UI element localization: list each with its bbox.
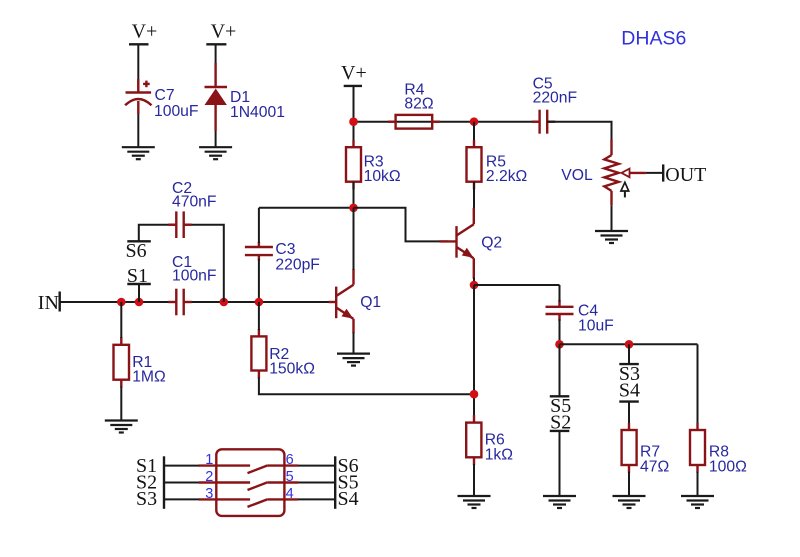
svg-text:100Ω: 100Ω: [709, 458, 747, 475]
wire node to R5: [473, 122, 475, 142]
resistor R3 10k: [346, 140, 401, 190]
wire C5 to VOL: [547, 122, 611, 155]
svg-text:47Ω: 47Ω: [640, 458, 669, 475]
svg-text:V+: V+: [132, 20, 158, 42]
junction node C2 right: [220, 298, 229, 307]
wire R2 column: [258, 302, 260, 330]
wire C2 branch: [139, 225, 177, 242]
svg-text:150kΩ: 150kΩ: [269, 361, 315, 378]
junction node Q2 emitter: [470, 281, 479, 290]
ground (R8): [681, 496, 714, 508]
switch pole 1 wire left: [164, 465, 200, 467]
power symbol V+ (C7 branch): [129, 20, 157, 44]
switch body SW1: [216, 449, 284, 516]
net label S4 (stub): [619, 380, 640, 431]
net label S5 (stub): [550, 344, 571, 417]
wire R1 column: [120, 302, 122, 338]
wire emitter column: [473, 285, 475, 416]
svg-text:IN: IN: [38, 292, 59, 314]
svg-text:S4: S4: [338, 488, 359, 510]
wire C4 bottom row: [560, 343, 698, 345]
capacitor C3 220pF: [245, 241, 320, 274]
junction node S3/R7: [625, 340, 634, 349]
wire R2 bottom row: [259, 377, 474, 394]
capacitor C5 220nF: [532, 76, 577, 134]
capacitor C2 470nF: [168, 180, 216, 238]
wire R8 to ground: [697, 472, 699, 496]
switch pole 3 wire left: [164, 498, 200, 500]
svg-text:2: 2: [205, 469, 213, 485]
wire V+ to node B1: [353, 86, 355, 142]
wire R8 column: [697, 344, 699, 431]
svg-text:VOL: VOL: [561, 167, 593, 184]
switch pole 2 wire right: [298, 482, 335, 484]
transistor Q2: [439, 208, 502, 279]
svg-text:Q1: Q1: [360, 294, 381, 311]
ground (D1): [199, 147, 232, 159]
terminal bar right (S6 S5 S4): [334, 456, 336, 509]
junction node R1: [117, 298, 126, 307]
wire C3 branch: [258, 208, 260, 243]
diode D1 1N4001: [205, 63, 285, 131]
power symbol V+ (R3 branch): [341, 62, 367, 86]
resistor R8 100ohm: [690, 423, 747, 475]
svg-text:Q2: Q2: [481, 235, 502, 252]
wire emitter row to C4: [474, 284, 560, 286]
svg-text:S1: S1: [127, 265, 148, 287]
svg-text:1N4001: 1N4001: [230, 104, 285, 121]
wire C7 to ground: [137, 114, 139, 147]
wire Q1 collector: [353, 208, 355, 270]
svg-text:220nF: 220nF: [533, 90, 577, 107]
svg-text:OUT: OUT: [665, 164, 706, 186]
wire Q1 emitter to ground: [353, 332, 355, 353]
ground (Q1): [337, 354, 370, 366]
ground (VOL): [595, 231, 628, 243]
resistor R5 2.2k: [467, 140, 528, 190]
capacitor C1 100nF: [168, 254, 216, 315]
net label S2 (stub): [550, 412, 571, 496]
svg-text:470nF: 470nF: [172, 194, 216, 211]
svg-text:S3: S3: [136, 488, 157, 510]
junction node S1: [135, 298, 144, 307]
resistor R6 1k: [466, 415, 513, 465]
switch pole 1 contacts: [199, 465, 298, 473]
junction node base of R3 / Q1 collector: [349, 204, 358, 213]
ground (R7): [613, 496, 646, 508]
junction node R6 top: [470, 390, 479, 399]
svg-text:S6: S6: [126, 240, 147, 262]
ground (R1): [105, 421, 138, 433]
capacitor C4 10uF: [546, 300, 614, 335]
resistor R1 1M: [114, 337, 166, 388]
svg-text:C7: C7: [155, 87, 175, 104]
svg-text:4: 4: [286, 486, 294, 502]
junction node C4 bottom: [555, 340, 564, 349]
capacitor C7: [125, 79, 198, 120]
svg-text:10uF: 10uF: [578, 318, 614, 335]
wire wiper to OUT: [646, 172, 663, 174]
switch pole 3 wire right: [298, 498, 335, 500]
wire VOL to ground: [611, 205, 613, 231]
junction node at R5 top: [470, 117, 479, 126]
net label S3 (stub): [619, 344, 640, 385]
svg-text:3: 3: [205, 486, 213, 502]
potentiometer VOL: [561, 139, 646, 205]
wire D1 to ground: [215, 131, 217, 147]
svg-text:5: 5: [286, 469, 294, 485]
resistor R2 150k: [251, 329, 315, 378]
svg-text:1MΩ: 1MΩ: [132, 368, 166, 385]
resistor R4 82ohm: [388, 82, 440, 129]
switch pole 2 contacts: [199, 482, 298, 490]
wire C3 top row: [259, 207, 354, 209]
wire main input row: [60, 301, 177, 303]
net label OUT: [663, 164, 706, 186]
transistor Q1: [329, 269, 382, 333]
ground (S2): [543, 496, 576, 508]
svg-text:S4: S4: [619, 380, 640, 402]
wire R3 to base node: [353, 182, 355, 208]
svg-text:V+: V+: [211, 20, 237, 42]
svg-text:100nF: 100nF: [172, 268, 216, 285]
svg-text:V+: V+: [341, 62, 367, 84]
junction node C3/R2: [255, 298, 264, 307]
power symbol V+ (D1 branch): [206, 20, 236, 44]
svg-text:82Ω: 82Ω: [404, 96, 433, 113]
svg-text:220pF: 220pF: [275, 257, 319, 274]
wire R4 row: [354, 121, 540, 123]
switch pole 3 contacts: [199, 499, 298, 507]
wire R6 to ground: [473, 464, 475, 496]
wire R5 to Q2 collector: [473, 182, 475, 210]
ground (R6): [458, 496, 491, 508]
net label S6 (stub): [126, 240, 151, 262]
net label S1 (stub): [127, 265, 151, 302]
wire Q2 emitter to node: [473, 278, 475, 285]
wire base node to Q2 base: [354, 208, 449, 242]
wire C4 column: [559, 285, 561, 302]
svg-text:DHAS6: DHAS6: [621, 28, 686, 50]
svg-text:C3: C3: [275, 241, 295, 258]
svg-text:1: 1: [205, 452, 213, 468]
svg-text:2.2kΩ: 2.2kΩ: [486, 168, 528, 185]
wire V+ to D1: [215, 44, 217, 64]
svg-text:100uF: 100uF: [154, 103, 198, 120]
svg-text:6: 6: [286, 452, 294, 468]
adjustment arrow (VOL): [621, 182, 629, 197]
svg-text:1kΩ: 1kΩ: [485, 447, 514, 464]
svg-text:10kΩ: 10kΩ: [364, 168, 401, 185]
ground (C7): [122, 147, 155, 159]
wire R7 to ground: [628, 472, 630, 496]
net label IN: [38, 292, 60, 314]
switch pole 1 wire right: [298, 465, 335, 467]
junction node at R3 top: [349, 117, 358, 126]
switch pole 2 wire left: [164, 482, 200, 484]
wire V+ to C7: [137, 44, 139, 92]
terminal bar left (S1 S2 S3): [163, 456, 165, 509]
resistor R7 47ohm: [622, 423, 670, 475]
